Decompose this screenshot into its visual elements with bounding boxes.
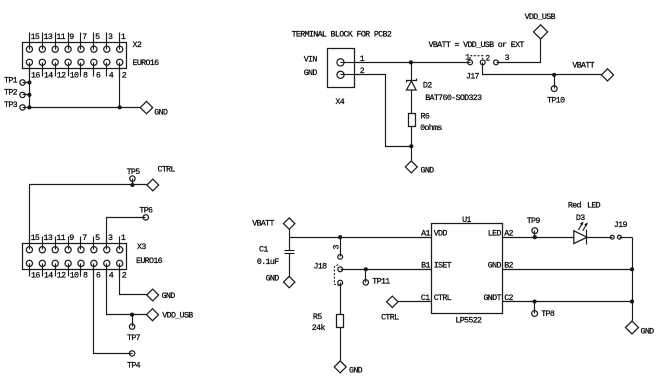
svg-text:3: 3 bbox=[108, 234, 113, 243]
junction TP9 bbox=[533, 235, 537, 239]
svg-text:VDD: VDD bbox=[434, 229, 448, 238]
svg-text:9: 9 bbox=[69, 234, 74, 243]
junction TP3 bbox=[27, 105, 31, 109]
svg-text:TP3: TP3 bbox=[4, 101, 18, 110]
svg-text:3: 3 bbox=[108, 33, 113, 42]
testpoint TP1 bbox=[20, 80, 25, 85]
X2 bottom pin stubs bbox=[30, 63, 120, 77]
svg-text:Red: Red bbox=[568, 201, 582, 211]
svg-text:15: 15 bbox=[31, 234, 40, 243]
wire D2 to R6 bbox=[411, 90, 413, 114]
wire X4 pin1 to J17 bbox=[355, 62, 468, 64]
wire X3 pin4 to VDD_USB bbox=[107, 264, 147, 315]
X2 top pin numbers bbox=[31, 33, 126, 42]
svg-text:D3: D3 bbox=[576, 214, 585, 223]
svg-text:10: 10 bbox=[70, 72, 79, 81]
svg-text:R6: R6 bbox=[421, 113, 430, 122]
diode D2 schottky bbox=[407, 79, 417, 91]
svg-text:16: 16 bbox=[31, 72, 40, 81]
wire TP2 stub bbox=[25, 94, 30, 96]
svg-text:R5: R5 bbox=[313, 313, 322, 322]
junction gnd rail mid bbox=[409, 144, 413, 148]
svg-text:4: 4 bbox=[109, 72, 114, 81]
svg-text:11: 11 bbox=[56, 33, 65, 42]
svg-text:6: 6 bbox=[96, 271, 101, 280]
svg-text:1: 1 bbox=[121, 33, 126, 42]
svg-text:8: 8 bbox=[83, 72, 88, 81]
wire LED net A2 bbox=[503, 237, 574, 239]
wire X3 pin6 to TP4 bbox=[94, 264, 130, 354]
svg-text:24k: 24k bbox=[312, 323, 326, 333]
J17 shunt dashes bbox=[470, 56, 483, 60]
power symbol VDD_USB top bbox=[534, 25, 548, 39]
X3 bottom pin stubs bbox=[30, 264, 120, 277]
svg-text:13: 13 bbox=[44, 33, 53, 42]
svg-text:5: 5 bbox=[95, 234, 100, 243]
svg-text:C1: C1 bbox=[259, 245, 268, 254]
testpoint TP4 bbox=[129, 351, 134, 356]
wire right gnd rail bbox=[632, 238, 634, 321]
svg-text:1: 1 bbox=[121, 234, 126, 243]
wire VBATT to C1 bbox=[289, 230, 291, 251]
wire TP11 stub bbox=[365, 270, 367, 280]
junction J18 top bbox=[338, 235, 342, 239]
wire D3 to J19 bbox=[587, 237, 611, 239]
wire TP10 stub bbox=[554, 75, 556, 86]
testpoint TP5 bbox=[130, 176, 135, 181]
wire J19 to right rail bbox=[622, 237, 633, 239]
svg-text:14: 14 bbox=[44, 72, 53, 81]
svg-text:GNDT: GNDT bbox=[483, 294, 501, 303]
ground symbol C1 bbox=[284, 276, 295, 287]
svg-text:EURO16: EURO16 bbox=[136, 257, 163, 266]
power symbol VBATT top bbox=[601, 69, 613, 81]
wire TP5 stub bbox=[132, 181, 134, 185]
ground symbol mid bbox=[405, 161, 417, 173]
svg-text:GND: GND bbox=[162, 292, 176, 301]
X2 bottom pin numbers bbox=[31, 72, 127, 81]
svg-text:EURO16: EURO16 bbox=[133, 59, 160, 68]
wire D2 anode drop bbox=[411, 63, 413, 81]
jumper J17 bbox=[467, 56, 501, 67]
ground symbol right bbox=[626, 321, 639, 334]
svg-text:11: 11 bbox=[56, 234, 65, 243]
wire GND net B2 bbox=[503, 269, 633, 271]
wire X3 pin2 to GND bbox=[120, 264, 147, 295]
X3 bottom row pin circles bbox=[26, 260, 32, 266]
svg-text:9: 9 bbox=[69, 33, 74, 42]
svg-text:VDD_USB: VDD_USB bbox=[162, 312, 193, 321]
svg-text:GND: GND bbox=[154, 108, 168, 117]
svg-text:12: 12 bbox=[57, 72, 66, 81]
terminal block X4 bbox=[328, 49, 355, 88]
svg-text:GND: GND bbox=[488, 262, 502, 271]
connector X2 body bbox=[23, 33, 127, 77]
wire J17 pin3 to VDD_USB bbox=[499, 39, 541, 63]
wire GNDT net C2 bbox=[503, 301, 633, 303]
svg-text:13: 13 bbox=[44, 234, 53, 243]
svg-text:3: 3 bbox=[333, 245, 342, 250]
X3 top pin stubs bbox=[30, 237, 120, 250]
wire R6 to gnd junction bbox=[411, 127, 413, 161]
wire CTRL to C1 pin bbox=[399, 301, 432, 303]
svg-text:TERMINAL BLOCK FOR PCB2: TERMINAL BLOCK FOR PCB2 bbox=[292, 31, 392, 40]
wire X2 pin16 to TP bus bbox=[29, 63, 31, 108]
wire TP7 stub bbox=[132, 315, 134, 325]
svg-text:GND: GND bbox=[641, 327, 655, 336]
X3 top pin numbers bbox=[31, 234, 126, 243]
svg-text:X3: X3 bbox=[137, 243, 146, 252]
ground symbol R5 bbox=[334, 361, 346, 373]
svg-text:X2: X2 bbox=[133, 41, 142, 50]
wire X3 pin15 to CTRL net bbox=[30, 185, 147, 250]
D3 emission arrows bbox=[579, 223, 583, 230]
svg-text:J17: J17 bbox=[466, 72, 480, 81]
wire TP9 stub bbox=[534, 234, 536, 238]
junction TP1 bbox=[27, 80, 31, 84]
svg-text:15: 15 bbox=[31, 33, 40, 42]
svg-text:GND: GND bbox=[349, 367, 363, 376]
svg-text:2: 2 bbox=[360, 67, 365, 76]
svg-text:GND: GND bbox=[266, 274, 280, 283]
ground symbol X3 bbox=[147, 289, 159, 301]
svg-text:TP11: TP11 bbox=[372, 277, 390, 286]
testpoint TP11 bbox=[363, 280, 368, 285]
ground symbol X2 bbox=[140, 101, 152, 113]
svg-text:J19: J19 bbox=[614, 221, 628, 230]
wire GND net X2 bbox=[30, 107, 141, 109]
wire TP1 stub bbox=[25, 82, 30, 84]
wire J17 pin2 to VBATT bbox=[483, 65, 602, 75]
svg-text:4: 4 bbox=[109, 271, 114, 280]
wire X3 pin3 to TP6 bbox=[107, 218, 144, 250]
capacitor C1 bbox=[285, 251, 295, 254]
svg-text:D2: D2 bbox=[423, 82, 432, 91]
svg-text:CTRL: CTRL bbox=[381, 314, 399, 323]
X3 top row pin circles bbox=[26, 247, 32, 253]
svg-text:VIN: VIN bbox=[304, 56, 318, 65]
svg-text:B1: B1 bbox=[421, 262, 430, 271]
svg-text:VBATT = VDD_USB or EXT: VBATT = VDD_USB or EXT bbox=[429, 41, 525, 50]
svg-text:GND: GND bbox=[304, 69, 318, 78]
resistor R6 bbox=[409, 114, 416, 127]
X3 bottom pin numbers bbox=[31, 271, 127, 280]
wire TP8 stub bbox=[534, 302, 536, 311]
svg-text:LP5522: LP5522 bbox=[455, 316, 482, 325]
junction X4 pin1 D2 bbox=[409, 60, 413, 64]
testpoint TP2 bbox=[20, 92, 25, 97]
svg-text:TP8: TP8 bbox=[541, 310, 555, 319]
testpoint TP3 bbox=[20, 105, 25, 110]
svg-text:8: 8 bbox=[83, 271, 88, 280]
svg-text:VBATT: VBATT bbox=[252, 220, 274, 229]
X2 bottom row pin circles bbox=[26, 59, 32, 65]
testpoint TP7 bbox=[129, 324, 134, 329]
svg-text:12: 12 bbox=[57, 271, 66, 280]
svg-text:10: 10 bbox=[70, 271, 79, 280]
svg-text:16: 16 bbox=[31, 271, 40, 280]
jumper J18 bbox=[334, 253, 344, 287]
svg-text:VDD_USB: VDD_USB bbox=[525, 13, 556, 22]
svg-text:1: 1 bbox=[360, 55, 365, 64]
svg-text:VBATT: VBATT bbox=[572, 62, 594, 71]
junction TP2 bbox=[27, 93, 31, 97]
svg-text:ISET: ISET bbox=[434, 262, 452, 271]
wire J18 pin3 drop bbox=[340, 238, 342, 255]
connector X3 body bbox=[23, 237, 127, 277]
junction X2 pin2 gnd bbox=[118, 105, 122, 109]
svg-text:TP6: TP6 bbox=[139, 207, 153, 216]
X2 top pin stubs bbox=[30, 33, 120, 50]
wire C1 to gnd bbox=[289, 254, 291, 277]
svg-text:7: 7 bbox=[82, 33, 87, 42]
svg-text:TP9: TP9 bbox=[527, 217, 541, 226]
jumper J19 bbox=[610, 235, 623, 239]
IC U1 body bbox=[432, 224, 503, 314]
svg-text:5: 5 bbox=[95, 33, 100, 42]
svg-text:LED: LED bbox=[488, 229, 502, 238]
svg-text:14: 14 bbox=[44, 271, 53, 280]
wire J18 pin2 to R5 bbox=[340, 286, 342, 315]
svg-text:3: 3 bbox=[505, 54, 510, 63]
J18 shunt dashes bbox=[334, 265, 340, 286]
svg-text:GND: GND bbox=[421, 167, 435, 176]
junction TP10 bbox=[552, 73, 556, 77]
port CTRL diamond lower bbox=[387, 296, 398, 307]
svg-text:LED: LED bbox=[587, 202, 601, 211]
svg-text:6: 6 bbox=[96, 72, 101, 81]
svg-text:0ohms: 0ohms bbox=[420, 123, 442, 133]
resistor R5 bbox=[337, 315, 344, 328]
wire R5 to gnd bbox=[340, 328, 342, 361]
svg-text:X4: X4 bbox=[335, 98, 344, 107]
svg-text:CTRL: CTRL bbox=[434, 294, 452, 303]
wire ISET net B1 bbox=[343, 269, 432, 271]
svg-text:CTRL: CTRL bbox=[158, 165, 176, 174]
svg-text:TP5: TP5 bbox=[127, 168, 141, 177]
testpoint TP6 bbox=[143, 215, 148, 220]
svg-text:1: 1 bbox=[465, 53, 470, 62]
svg-text:A1: A1 bbox=[421, 229, 430, 238]
wire VDD net A1 bbox=[290, 237, 432, 239]
junction TP5 bbox=[130, 183, 134, 187]
svg-text:J18: J18 bbox=[314, 263, 328, 272]
wire X4 pin2 to gnd rail bbox=[355, 75, 412, 147]
testpoint TP9 bbox=[532, 228, 538, 234]
svg-text:TP4: TP4 bbox=[127, 361, 141, 370]
svg-text:TP7: TP7 bbox=[127, 334, 141, 343]
svg-text:C1: C1 bbox=[421, 294, 430, 303]
power symbol VBATT lower bbox=[284, 218, 295, 229]
junction VDD_USB X3 bbox=[130, 313, 134, 317]
svg-text:0.1uF: 0.1uF bbox=[257, 258, 279, 267]
junction TP11 bbox=[364, 267, 368, 271]
testpoint TP10 bbox=[551, 86, 557, 92]
svg-text:2: 2 bbox=[122, 271, 127, 280]
junction B2 rail bbox=[630, 267, 634, 271]
svg-text:BAT760-SOD323: BAT760-SOD323 bbox=[425, 94, 482, 103]
svg-text:TP2: TP2 bbox=[4, 89, 18, 98]
testpoint TP8 bbox=[532, 311, 538, 317]
svg-text:TP1: TP1 bbox=[4, 76, 18, 85]
port CTRL diamond upper bbox=[147, 179, 159, 191]
svg-text:7: 7 bbox=[82, 234, 87, 243]
svg-text:U1: U1 bbox=[462, 216, 471, 225]
svg-text:TP10: TP10 bbox=[547, 97, 565, 106]
svg-text:2: 2 bbox=[122, 72, 127, 81]
X2 top row pin circles bbox=[26, 46, 32, 52]
wire X2 pin2 down bbox=[119, 63, 121, 108]
LED D3 bbox=[574, 221, 588, 244]
junction TP8 bbox=[533, 299, 537, 303]
power symbol VDD_USB X3 bbox=[147, 309, 159, 321]
junction C2 rail bbox=[630, 299, 634, 303]
svg-text:2: 2 bbox=[485, 54, 490, 63]
